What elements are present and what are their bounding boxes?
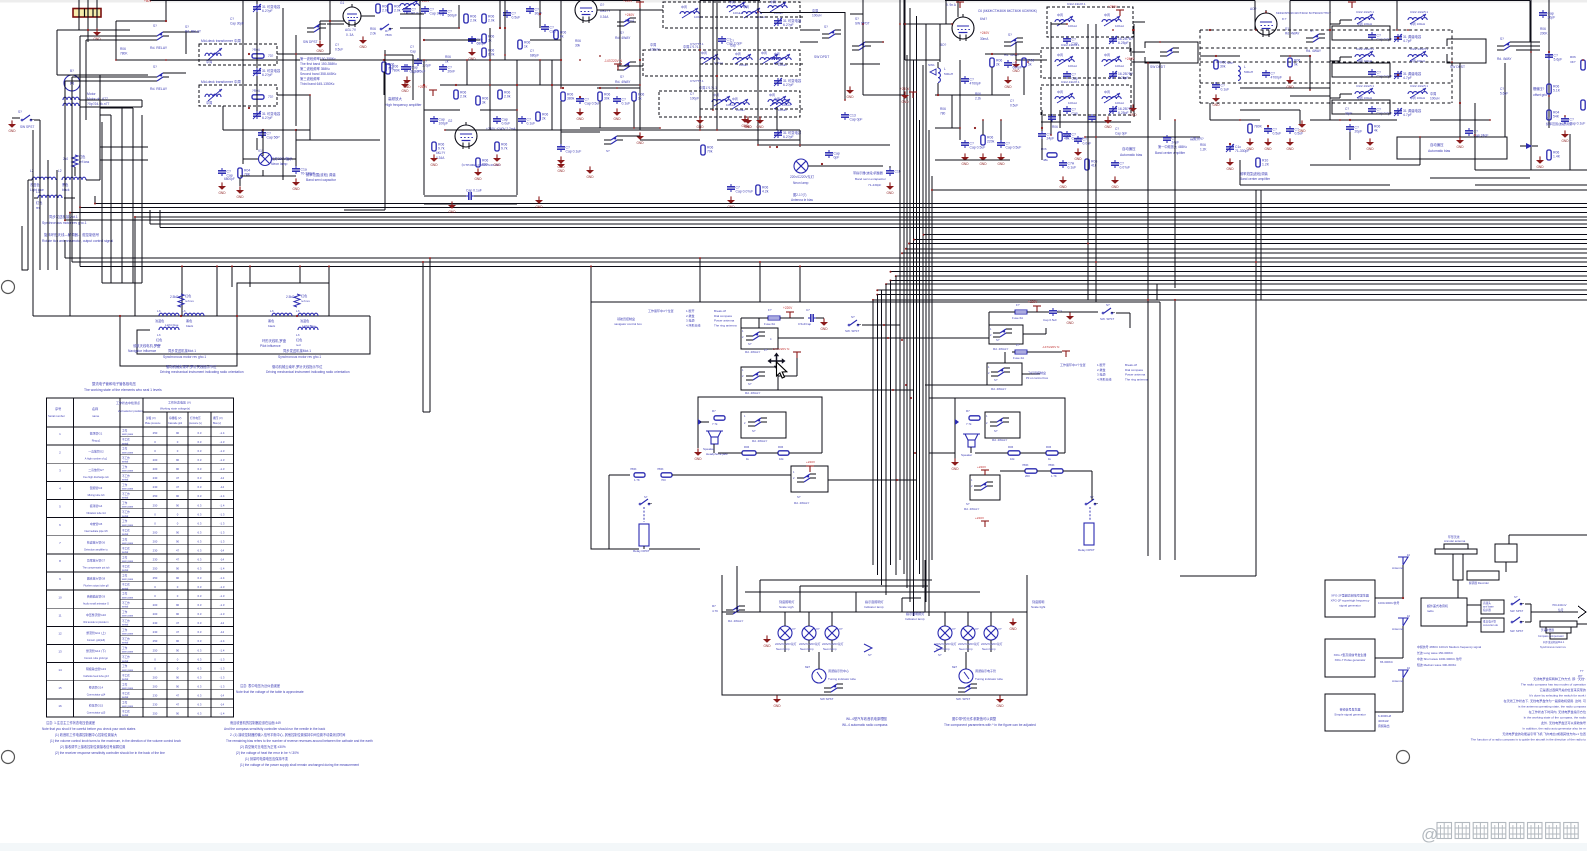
svg-text:Cap 0.1uF: Cap 0.1uF bbox=[466, 189, 482, 193]
svg-text:GND: GND bbox=[846, 95, 854, 99]
svg-text:20pF: 20pF bbox=[1355, 130, 1363, 134]
svg-text:整流电子管和电子管各极电压: 整流电子管和电子管各极电压 bbox=[92, 381, 137, 386]
svg-text:SW SPST: SW SPST bbox=[20, 125, 34, 129]
svg-text:1.7K: 1.7K bbox=[1051, 474, 1057, 478]
svg-text:Mid-deck transformer 中周: Mid-deck transformer 中周 bbox=[201, 38, 241, 43]
svg-text:-1.3: -1.3 bbox=[220, 585, 225, 589]
svg-text:-1.3: -1.3 bbox=[220, 540, 225, 544]
svg-text:C?: C? bbox=[530, 49, 534, 53]
svg-text:S?: S? bbox=[752, 429, 756, 433]
svg-text:S?: S? bbox=[748, 342, 752, 346]
svg-text:在天线工作状态下, 无线电罗盘作为一般接收机使用. 这时,: 在天线工作状态下, 无线电罗盘作为一般接收机使用. 这时, 可 bbox=[1503, 698, 1586, 703]
svg-text:C?: C? bbox=[730, 39, 734, 43]
svg-text:-1.4: -1.4 bbox=[220, 576, 225, 580]
svg-text:指示音照明灯: 指示音照明灯 bbox=[865, 599, 884, 604]
svg-text:-1.4: -1.4 bbox=[220, 567, 225, 571]
svg-text:工作: 工作 bbox=[122, 447, 128, 451]
svg-text:Relay DPDT: Relay DPDT bbox=[1078, 548, 1095, 552]
svg-text:СЖ2.1Ж2Л.1: СЖ2.1Ж2Л.1 bbox=[1410, 47, 1428, 51]
svg-text:Rotate tich antenna motor, out: Rotate tich antenna motor, output contro… bbox=[42, 239, 113, 243]
svg-text:Rd. 4WAY: Rd. 4WAY bbox=[1285, 31, 1300, 35]
svg-text:ВО?: ВО? bbox=[940, 43, 946, 47]
svg-text:200: 200 bbox=[153, 530, 158, 534]
svg-text:Rd. 4WALY: Rd. 4WALY bbox=[745, 350, 760, 354]
svg-text:R7: R7 bbox=[712, 604, 716, 608]
svg-text:Fuse 6A: Fuse 6A bbox=[764, 322, 775, 326]
svg-text:serial: serial bbox=[122, 623, 129, 627]
svg-text:asm pass: asm pass bbox=[122, 542, 134, 545]
svg-text:+220V: +220V bbox=[783, 306, 793, 310]
svg-text:-1.4: -1.4 bbox=[220, 639, 225, 643]
svg-text:6.3: 6.3 bbox=[198, 467, 202, 471]
svg-text:6.2?pF: 6.2?pF bbox=[783, 23, 794, 27]
svg-text:Cap 0pF: Cap 0pF bbox=[850, 118, 863, 122]
svg-text:In the working state of the co: In the working state of the compass, the… bbox=[1524, 716, 1587, 720]
svg-text:频率范围(波段) 调谐: 频率范围(波段) 调谐 bbox=[306, 172, 336, 177]
svg-text:整流管G14: 整流管G14 bbox=[89, 684, 104, 689]
svg-text:47: 47 bbox=[176, 558, 180, 562]
svg-text:GND: GND bbox=[1104, 125, 1112, 129]
svg-text:Mid-deck transformer 中周: Mid-deck transformer 中周 bbox=[201, 79, 241, 84]
svg-text:asm pass: asm pass bbox=[122, 560, 134, 563]
svg-text:5k: 5k bbox=[1028, 63, 1032, 67]
svg-text:XFG-7 Pulse generator: XFG-7 Pulse generator bbox=[1335, 658, 1366, 662]
svg-text:100uH: 100uH bbox=[1115, 101, 1124, 105]
svg-text:90: 90 bbox=[176, 530, 180, 534]
svg-text:220V/C220V氖灯: 220V/C220V氖灯 bbox=[958, 642, 980, 646]
svg-text:780K: 780K bbox=[120, 51, 128, 55]
svg-text:Navigator influence: Navigator influence bbox=[128, 349, 156, 353]
svg-text:6.3: 6.3 bbox=[198, 694, 202, 698]
svg-text:L3: L3 bbox=[270, 309, 274, 313]
svg-text:解调器 Recorder: 解调器 Recorder bbox=[1469, 581, 1489, 585]
svg-text:-14: -14 bbox=[220, 703, 224, 707]
svg-text:GND: GND bbox=[316, 49, 324, 53]
svg-text:+250V: +250V bbox=[418, 85, 428, 89]
svg-text:serial: serial bbox=[122, 677, 129, 681]
svg-text:注意: 表中电压为近似值误差: 注意: 表中电压为近似值误差 bbox=[240, 683, 280, 688]
svg-text:250: 250 bbox=[153, 503, 158, 507]
svg-text:SW DPST: SW DPST bbox=[1450, 65, 1465, 69]
svg-text:Scale light: Scale light bbox=[1031, 605, 1045, 609]
svg-text:30k: 30k bbox=[575, 43, 581, 47]
svg-text:Plate pressure: Plate pressure bbox=[145, 422, 161, 425]
svg-text:6E?: 6E? bbox=[805, 665, 811, 669]
svg-text:Rd. 4WAY: Rd. 4WAY bbox=[1497, 57, 1512, 61]
svg-text:XFG-7型高频信号发生器: XFG-7型高频信号发生器 bbox=[1334, 652, 1367, 657]
svg-text:6.3: 6.3 bbox=[198, 639, 202, 643]
svg-text:200: 200 bbox=[153, 540, 158, 544]
svg-text:工作状态电压 (V): 工作状态电压 (V) bbox=[168, 400, 191, 405]
svg-text:-147/220V N: -147/220V N bbox=[772, 347, 789, 351]
svg-text:90: 90 bbox=[176, 639, 180, 643]
svg-text:serial: serial bbox=[122, 604, 129, 608]
svg-text:高频头: 高频头 bbox=[1483, 601, 1491, 605]
svg-text:4.7pF: 4.7pF bbox=[1403, 113, 1412, 117]
svg-text:asm pass: asm pass bbox=[122, 451, 134, 454]
svg-text:250: 250 bbox=[153, 712, 158, 716]
svg-text:9.7k: 9.7k bbox=[438, 147, 445, 151]
svg-text:230: 230 bbox=[153, 558, 158, 562]
svg-text:工作: 工作 bbox=[122, 429, 128, 433]
svg-text:中周: 中周 bbox=[1057, 52, 1063, 57]
svg-text:6.3: 6.3 bbox=[198, 549, 202, 553]
svg-text:Tuning indicator tube: Tuning indicator tube bbox=[975, 677, 1003, 681]
svg-text:СЖ2.1Ж2Л.1: СЖ2.1Ж2Л.1 bbox=[1067, 2, 1086, 6]
svg-text:6.3: 6.3 bbox=[198, 585, 202, 589]
svg-text:Consol. tube g12d go: Consol. tube g12d go bbox=[84, 657, 108, 660]
svg-text:Speaker: Speaker bbox=[703, 447, 714, 451]
svg-text:GND: GND bbox=[535, 205, 543, 209]
svg-text:-14: -14 bbox=[220, 621, 224, 625]
svg-text:C?: C? bbox=[1115, 127, 1119, 131]
svg-text:90: 90 bbox=[176, 648, 180, 652]
svg-text:220k: 220k bbox=[987, 140, 995, 144]
svg-text:90: 90 bbox=[176, 431, 180, 435]
svg-text:Cap 0.5uF: Cap 0.5uF bbox=[970, 146, 986, 150]
svg-text:-1.3: -1.3 bbox=[220, 612, 225, 616]
svg-text:8k: 8k bbox=[560, 35, 564, 39]
svg-text:V?: V? bbox=[816, 627, 820, 631]
svg-text:54K: 54K bbox=[1553, 115, 1560, 119]
svg-text:The ring antenna: The ring antenna bbox=[1125, 377, 1148, 381]
svg-text:6h4?: 6h4? bbox=[980, 17, 987, 21]
svg-text:asm pass: asm pass bbox=[122, 488, 134, 491]
svg-text:振荡管G4: 振荡管G4 bbox=[90, 503, 103, 508]
svg-text:栅压 (V): 栅压 (V) bbox=[213, 416, 223, 420]
svg-text:200: 200 bbox=[153, 612, 158, 616]
svg-text:图中带*的元件参数值可以调整: 图中带*的元件参数值可以调整 bbox=[952, 716, 997, 721]
svg-text:converter ele: converter ele bbox=[1483, 623, 1499, 627]
svg-text:serial: serial bbox=[122, 459, 129, 463]
svg-text:WL-4 automatic radio compass: WL-4 automatic radio compass bbox=[842, 723, 888, 727]
svg-text:100uH: 100uH bbox=[812, 13, 822, 17]
svg-text:100uH: 100uH bbox=[778, 63, 787, 67]
svg-text:+220V: +220V bbox=[623, 0, 633, 3]
svg-text:The working state of the eleme: The working state of the elements who se… bbox=[84, 388, 162, 392]
svg-text:250: 250 bbox=[153, 639, 158, 643]
svg-text:6.3: 6.3 bbox=[198, 485, 202, 489]
svg-text:SW DPDT: SW DPDT bbox=[855, 21, 870, 25]
svg-text:680pF: 680pF bbox=[530, 53, 539, 57]
svg-text:SW. SPST: SW. SPST bbox=[1100, 317, 1114, 321]
svg-text:中周: 中周 bbox=[681, 4, 687, 9]
svg-text:Relay DPDT: Relay DPDT bbox=[633, 549, 650, 553]
svg-text:工作循环中4个位置: 工作循环中4个位置 bbox=[648, 308, 674, 313]
svg-text:调谐指示管中心: 调谐指示管中心 bbox=[828, 668, 849, 673]
svg-text:16: 16 bbox=[58, 704, 62, 708]
svg-text:B?: B? bbox=[70, 69, 74, 73]
svg-text:环形天线机,罗盘: 环形天线机,罗盘 bbox=[262, 338, 287, 343]
svg-text:GND: GND bbox=[886, 191, 894, 195]
svg-text:400KHZ: 400KHZ bbox=[1378, 719, 1389, 723]
svg-text:2.0k: 2.0k bbox=[488, 19, 495, 23]
svg-text:Cap: Cap bbox=[730, 43, 736, 47]
svg-text:Fuse 2A: Fuse 2A bbox=[1013, 356, 1024, 360]
svg-text:СЖ2.1Ж2Л.1: СЖ2.1Ж2Л.1 bbox=[1356, 47, 1374, 51]
svg-text:6.3: 6.3 bbox=[198, 612, 202, 616]
svg-text:S?: S? bbox=[620, 75, 624, 79]
svg-text:Power antenna: Power antenna bbox=[1125, 373, 1146, 377]
svg-text:30pF: 30pF bbox=[535, 12, 543, 16]
svg-text:GND: GND bbox=[1561, 139, 1569, 143]
svg-text:GND: GND bbox=[8, 129, 16, 133]
svg-text:100uH: 100uH bbox=[1115, 64, 1124, 68]
svg-text:R06: R06 bbox=[1200, 143, 1206, 147]
svg-text:(2) 真空管灯丝电压为正常 ±30%: (2) 真空管灯丝电压为正常 ±30% bbox=[240, 744, 286, 749]
svg-text:不工作: 不工作 bbox=[122, 456, 130, 460]
svg-text:GND: GND bbox=[1264, 147, 1272, 151]
svg-text:6800pF: 6800pF bbox=[224, 177, 235, 181]
svg-text:它是通过选择开关的位置来实现的: 它是通过选择开关的位置来实现的 bbox=[1540, 687, 1586, 692]
svg-text:不工作: 不工作 bbox=[122, 438, 130, 442]
svg-text:V?: V? bbox=[792, 627, 796, 631]
svg-text:Rd. 4WALY: Rd. 4WALY bbox=[752, 439, 767, 443]
svg-text:250: 250 bbox=[153, 648, 158, 652]
svg-text:4k: 4k bbox=[1374, 129, 1378, 133]
svg-text:100uH: 100uH bbox=[650, 47, 660, 51]
svg-text:Tuning indicator tube: Tuning indicator tube bbox=[828, 677, 856, 681]
svg-text:100uH: 100uH bbox=[1068, 64, 1077, 68]
svg-text:6КL?Y: 6КL?Y bbox=[436, 151, 446, 155]
svg-text:GND: GND bbox=[1286, 147, 1294, 151]
svg-text:领航员控制盒: 领航员控制盒 bbox=[617, 316, 635, 321]
svg-text:阴极输出管G13: 阴极输出管G13 bbox=[86, 666, 106, 671]
svg-text:1.4K: 1.4K bbox=[1553, 155, 1561, 159]
svg-text:不工作: 不工作 bbox=[122, 528, 130, 532]
svg-text:-1.3: -1.3 bbox=[220, 594, 225, 598]
svg-text:-1.3: -1.3 bbox=[220, 521, 225, 525]
svg-text:4.7pF: 4.7pF bbox=[1403, 39, 1412, 43]
svg-text:Neon lamp: Neon lamp bbox=[271, 162, 288, 166]
svg-text:Cap 0.5uF: Cap 0.5uF bbox=[1043, 318, 1057, 322]
svg-text:6.25pF: 6.25pF bbox=[1118, 41, 1129, 45]
svg-text:Neon lamp: Neon lamp bbox=[793, 181, 809, 185]
svg-text:GND: GND bbox=[1066, 321, 1074, 325]
svg-text:Neon lamp: Neon lamp bbox=[959, 647, 973, 651]
svg-text:220V/C220V氖灯: 220V/C220V氖灯 bbox=[822, 642, 844, 646]
svg-text:6.3: 6.3 bbox=[198, 685, 202, 689]
svg-text:R06: R06 bbox=[1540, 27, 1546, 31]
svg-text:-14: -14 bbox=[220, 694, 224, 698]
svg-text:offset grid: offset grid bbox=[1533, 93, 1547, 97]
svg-text:黑色: 黑色 bbox=[186, 318, 192, 323]
svg-text:asm pass: asm pass bbox=[122, 687, 134, 690]
svg-text:0.0uF: 0.0uF bbox=[502, 122, 511, 126]
svg-text:Rd. 4WALY: Rd. 4WALY bbox=[728, 619, 743, 623]
svg-text:屏极 (V): 屏极 (V) bbox=[146, 416, 156, 420]
svg-text:中频信号 465KC 100mV Medium f: 中频信号 465KC 100mV Medium frequency signal bbox=[1417, 644, 1481, 649]
svg-text:6.3: 6.3 bbox=[198, 603, 202, 607]
svg-text:C7: C7 bbox=[806, 308, 810, 312]
svg-text:L3: L3 bbox=[296, 309, 300, 313]
svg-text:Compass compensator: Compass compensator bbox=[1538, 635, 1564, 638]
svg-text:中周 100uH: 中周 100uH bbox=[1410, 58, 1425, 63]
svg-text:(2) 接收调节上接收控制位置接收信号最弱位置: (2) 接收调节上接收控制位置接收信号最弱位置 bbox=[60, 744, 125, 749]
svg-text:20nF: 20nF bbox=[448, 70, 456, 74]
svg-text:Rd. 4WAY: Rd. 4WAY bbox=[615, 80, 631, 84]
svg-text:2.5kΩ: 2.5kΩ bbox=[286, 295, 295, 299]
svg-text:GND: GND bbox=[1456, 145, 1464, 149]
svg-text:12: 12 bbox=[58, 632, 62, 636]
svg-text:6.3: 6.3 bbox=[198, 675, 202, 679]
svg-text:Pil ot control box: Pil ot control box bbox=[1026, 376, 1049, 380]
svg-text:pressure (v): pressure (v) bbox=[189, 422, 202, 425]
svg-text:中周: 中周 bbox=[735, 51, 741, 56]
svg-text:Dial compass: Dial compass bbox=[714, 314, 733, 318]
svg-text:信号: 信号 bbox=[1558, 608, 1564, 612]
svg-text:不工作: 不工作 bbox=[122, 637, 130, 641]
svg-text:Cap 0.0?uF: Cap 0.0?uF bbox=[736, 190, 754, 194]
svg-text:F?: F? bbox=[768, 308, 772, 312]
svg-text:6К4Ж/6П3КCЖСТ4КЖ 6СТ9КЖC?НСТ: 6К4Ж/6П3КCЖСТ4КЖ 6СТ9КЖC?НСТ bbox=[1276, 11, 1331, 15]
svg-text:ref loss: ref loss bbox=[79, 160, 90, 164]
svg-text:R06: R06 bbox=[445, 55, 451, 59]
svg-text:(1) 收音机工作电源控制器中心控制位置最大: (1) 收音机工作电源控制器中心控制位置最大 bbox=[55, 732, 118, 737]
svg-text:S?: S? bbox=[996, 338, 1000, 342]
svg-text:2nd selector position: 2nd selector position bbox=[118, 409, 143, 413]
svg-text:栅偏压?: 栅偏压? bbox=[1533, 86, 1545, 91]
svg-text:230: 230 bbox=[153, 621, 158, 625]
svg-text:工作: 工作 bbox=[122, 574, 128, 578]
svg-text:GND: GND bbox=[218, 191, 226, 195]
svg-text:47: 47 bbox=[176, 549, 180, 553]
svg-text:6.3: 6.3 bbox=[198, 449, 202, 453]
svg-text:2k: 2k bbox=[996, 63, 1000, 67]
svg-text:R06: R06 bbox=[1570, 55, 1576, 59]
svg-text:S?: S? bbox=[153, 65, 157, 69]
svg-text:Neon lamp: Neon lamp bbox=[776, 647, 790, 651]
svg-text:100uH: 100uH bbox=[778, 108, 787, 112]
svg-text:СЖ2.1Ж2Л.1: СЖ2.1Ж2Л.1 bbox=[1356, 84, 1374, 88]
svg-text:(1) 测量时电源电压应保持不变: (1) 测量时电源电压应保持不变 bbox=[245, 756, 289, 761]
svg-text:0.0uF: 0.0uF bbox=[1083, 142, 1092, 146]
svg-text:Fuse 6A: Fuse 6A bbox=[1012, 316, 1023, 320]
svg-text:220V/C220V氖灯: 220V/C220V氖灯 bbox=[981, 642, 1003, 646]
svg-text:asm pass: asm pass bbox=[122, 633, 134, 636]
svg-text:asm pass: asm pass bbox=[122, 705, 134, 708]
svg-text:L3: L3 bbox=[157, 309, 161, 313]
svg-text:F?: F? bbox=[764, 348, 768, 352]
svg-text:-1.3: -1.3 bbox=[220, 657, 225, 661]
svg-text:-1.3: -1.3 bbox=[220, 467, 225, 471]
svg-text:-1.3: -1.3 bbox=[220, 603, 225, 607]
svg-text:不工作: 不工作 bbox=[122, 601, 130, 605]
svg-text:100uH: 100uH bbox=[733, 11, 742, 15]
svg-text:G2: G2 bbox=[448, 119, 452, 123]
svg-text:asm pass: asm pass bbox=[122, 614, 134, 617]
svg-text:47: 47 bbox=[176, 694, 180, 698]
svg-text:Commutator g15: Commutator g15 bbox=[87, 711, 106, 714]
svg-text:asm pass: asm pass bbox=[122, 669, 134, 672]
svg-text:6.3: 6.3 bbox=[198, 512, 202, 516]
svg-text:R06: R06 bbox=[370, 27, 376, 31]
svg-text:780K: 780K bbox=[1048, 463, 1055, 467]
svg-text:24pF: 24pF bbox=[1345, 111, 1352, 115]
svg-text:GND: GND bbox=[430, 163, 438, 167]
svg-text:Band servi capacitor: Band servi capacitor bbox=[306, 178, 337, 182]
svg-text:3k: 3k bbox=[482, 101, 486, 105]
svg-text:罗差补偿器: 罗差补偿器 bbox=[1541, 628, 1554, 632]
svg-text:驱动机械云南环,罗针天线指示节位: 驱动机械云南环,罗针天线指示节位 bbox=[272, 364, 323, 369]
svg-text:15: 15 bbox=[58, 686, 62, 690]
svg-text:6.3: 6.3 bbox=[198, 558, 202, 562]
svg-text:C?: C? bbox=[1345, 107, 1349, 111]
svg-text:混频管G3: 混频管G3 bbox=[90, 485, 103, 490]
svg-text:不工作: 不工作 bbox=[122, 619, 130, 623]
svg-text:380k: 380k bbox=[567, 97, 575, 101]
svg-text:L3: L3 bbox=[296, 333, 300, 337]
svg-text:+220V: +220V bbox=[975, 516, 985, 520]
svg-text:500pF: 500pF bbox=[448, 14, 458, 18]
svg-text:SW. SPST: SW. SPST bbox=[845, 329, 859, 333]
svg-text:asm pass: asm pass bbox=[122, 651, 134, 654]
svg-text:100uH: 100uH bbox=[1068, 101, 1077, 105]
svg-text:It's done by selecting the swi: It's done by selecting the switch for wo… bbox=[1529, 694, 1586, 698]
svg-text:V?: V? bbox=[839, 627, 843, 631]
svg-text:GND: GND bbox=[236, 195, 244, 199]
svg-text:Indicator lamp: Indicator lamp bbox=[864, 605, 884, 609]
svg-text:Scale Ligh: Scale Ligh bbox=[779, 605, 794, 609]
svg-text:中周: 中周 bbox=[1430, 91, 1436, 96]
svg-text:Cap: Cap bbox=[410, 49, 416, 53]
svg-text:中周: 中周 bbox=[1057, 12, 1063, 17]
svg-text:Light blue: Light blue bbox=[165, 323, 179, 327]
svg-text:工作: 工作 bbox=[122, 664, 128, 668]
svg-text:C1e: C1e bbox=[1546, 117, 1552, 121]
svg-text:(1) the volume control knob tu: (1) the volume control knob turns to the… bbox=[50, 739, 181, 743]
svg-text:0.1uF: 0.1uF bbox=[622, 102, 631, 106]
svg-text:(2) the receiver response sens: (2) the receiver response sensitivity co… bbox=[55, 751, 165, 755]
svg-text:W?: W? bbox=[1578, 674, 1583, 678]
svg-text:S?: S? bbox=[620, 31, 624, 35]
svg-text:200K: 200K bbox=[1540, 31, 1548, 35]
svg-text:Neon lamp: Neon lamp bbox=[823, 647, 837, 651]
svg-text:220V/C220V氖灯: 220V/C220V氖灯 bbox=[799, 642, 821, 646]
svg-text:红色: 红色 bbox=[296, 337, 302, 342]
svg-text:C6 (6К4ЖСТЖ4КЖ 6КСТ4КЖ 6СЖ9КЖ: C6 (6К4ЖСТЖ4КЖ 6КСТ4КЖ 6СЖ9КЖ) bbox=[978, 9, 1037, 13]
svg-text:F?: F? bbox=[1016, 343, 1020, 347]
svg-text:GND: GND bbox=[1226, 167, 1234, 171]
svg-text:不工作: 不工作 bbox=[122, 510, 130, 514]
svg-text:R7: R7 bbox=[966, 409, 970, 413]
svg-text:+80V: +80V bbox=[144, 0, 152, 3]
svg-text:Dial compass: Dial compass bbox=[1125, 368, 1144, 372]
svg-text:90: 90 bbox=[176, 675, 180, 679]
svg-text:中周 100uH: 中周 100uH bbox=[1410, 95, 1425, 100]
svg-text:0.34A: 0.34A bbox=[600, 15, 609, 19]
svg-text:高频放大: 高频放大 bbox=[388, 96, 402, 101]
svg-text:Automatic bias: Automatic bias bbox=[1428, 149, 1451, 153]
svg-text:GND: GND bbox=[1012, 69, 1020, 73]
svg-text:13: 13 bbox=[58, 650, 62, 654]
svg-text:注意: 1.注意主工作状态电压值误差: 注意: 1.注意主工作状态电压值误差 bbox=[46, 720, 95, 725]
svg-text:0.0?uF: 0.0?uF bbox=[1120, 166, 1131, 170]
svg-text:0.0k: 0.0k bbox=[488, 53, 495, 57]
svg-text:100pF: 100pF bbox=[690, 96, 699, 100]
svg-text:第三波段频率: 第三波段频率 bbox=[300, 76, 320, 81]
svg-text:-147/220V N: -147/220V N bbox=[1042, 345, 1059, 349]
svg-text:S7: S7 bbox=[644, 495, 648, 499]
svg-text:帘栅极 (V): 帘栅极 (V) bbox=[169, 416, 181, 420]
svg-text:频率范围(波段)调谐: 频率范围(波段)调谐 bbox=[1240, 171, 1268, 176]
svg-text:200: 200 bbox=[153, 603, 158, 607]
svg-text:工作: 工作 bbox=[122, 519, 128, 523]
svg-text:0.5uF: 0.5uF bbox=[335, 47, 343, 51]
svg-text:SW1: SW1 bbox=[928, 63, 935, 67]
svg-text:SW DPST: SW DPST bbox=[303, 40, 318, 44]
svg-text:6.3: 6.3 bbox=[198, 657, 202, 661]
